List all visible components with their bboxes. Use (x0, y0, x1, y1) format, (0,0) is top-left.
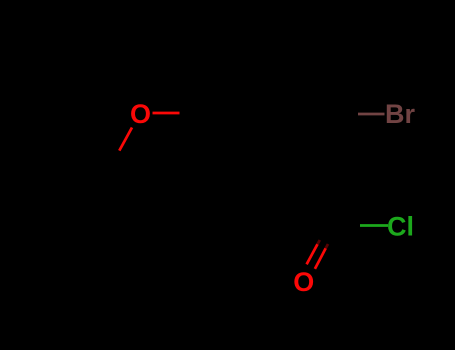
bond O1-C5 (red half, wire to ring) (153, 112, 180, 115)
bond C8-Cl (green half) (360, 224, 388, 227)
svg-text:O: O (293, 267, 314, 297)
svg-text:Cl: Cl (387, 212, 414, 242)
svg-text:O: O (130, 99, 151, 129)
double bond C8=O2 outer line fade tip (318, 240, 320, 244)
double bond C8=O2 main line fade tip (326, 244, 328, 248)
bond C2-Br (brown half) (358, 113, 385, 116)
double bond C8=O2 outer line (red half) (307, 244, 318, 264)
double bond C8=O2 main line (red half) (315, 248, 326, 269)
bond O1-C7 (red half, wire to cyclopropyl carbon) (119, 128, 132, 151)
svg-text:Br: Br (385, 99, 415, 129)
